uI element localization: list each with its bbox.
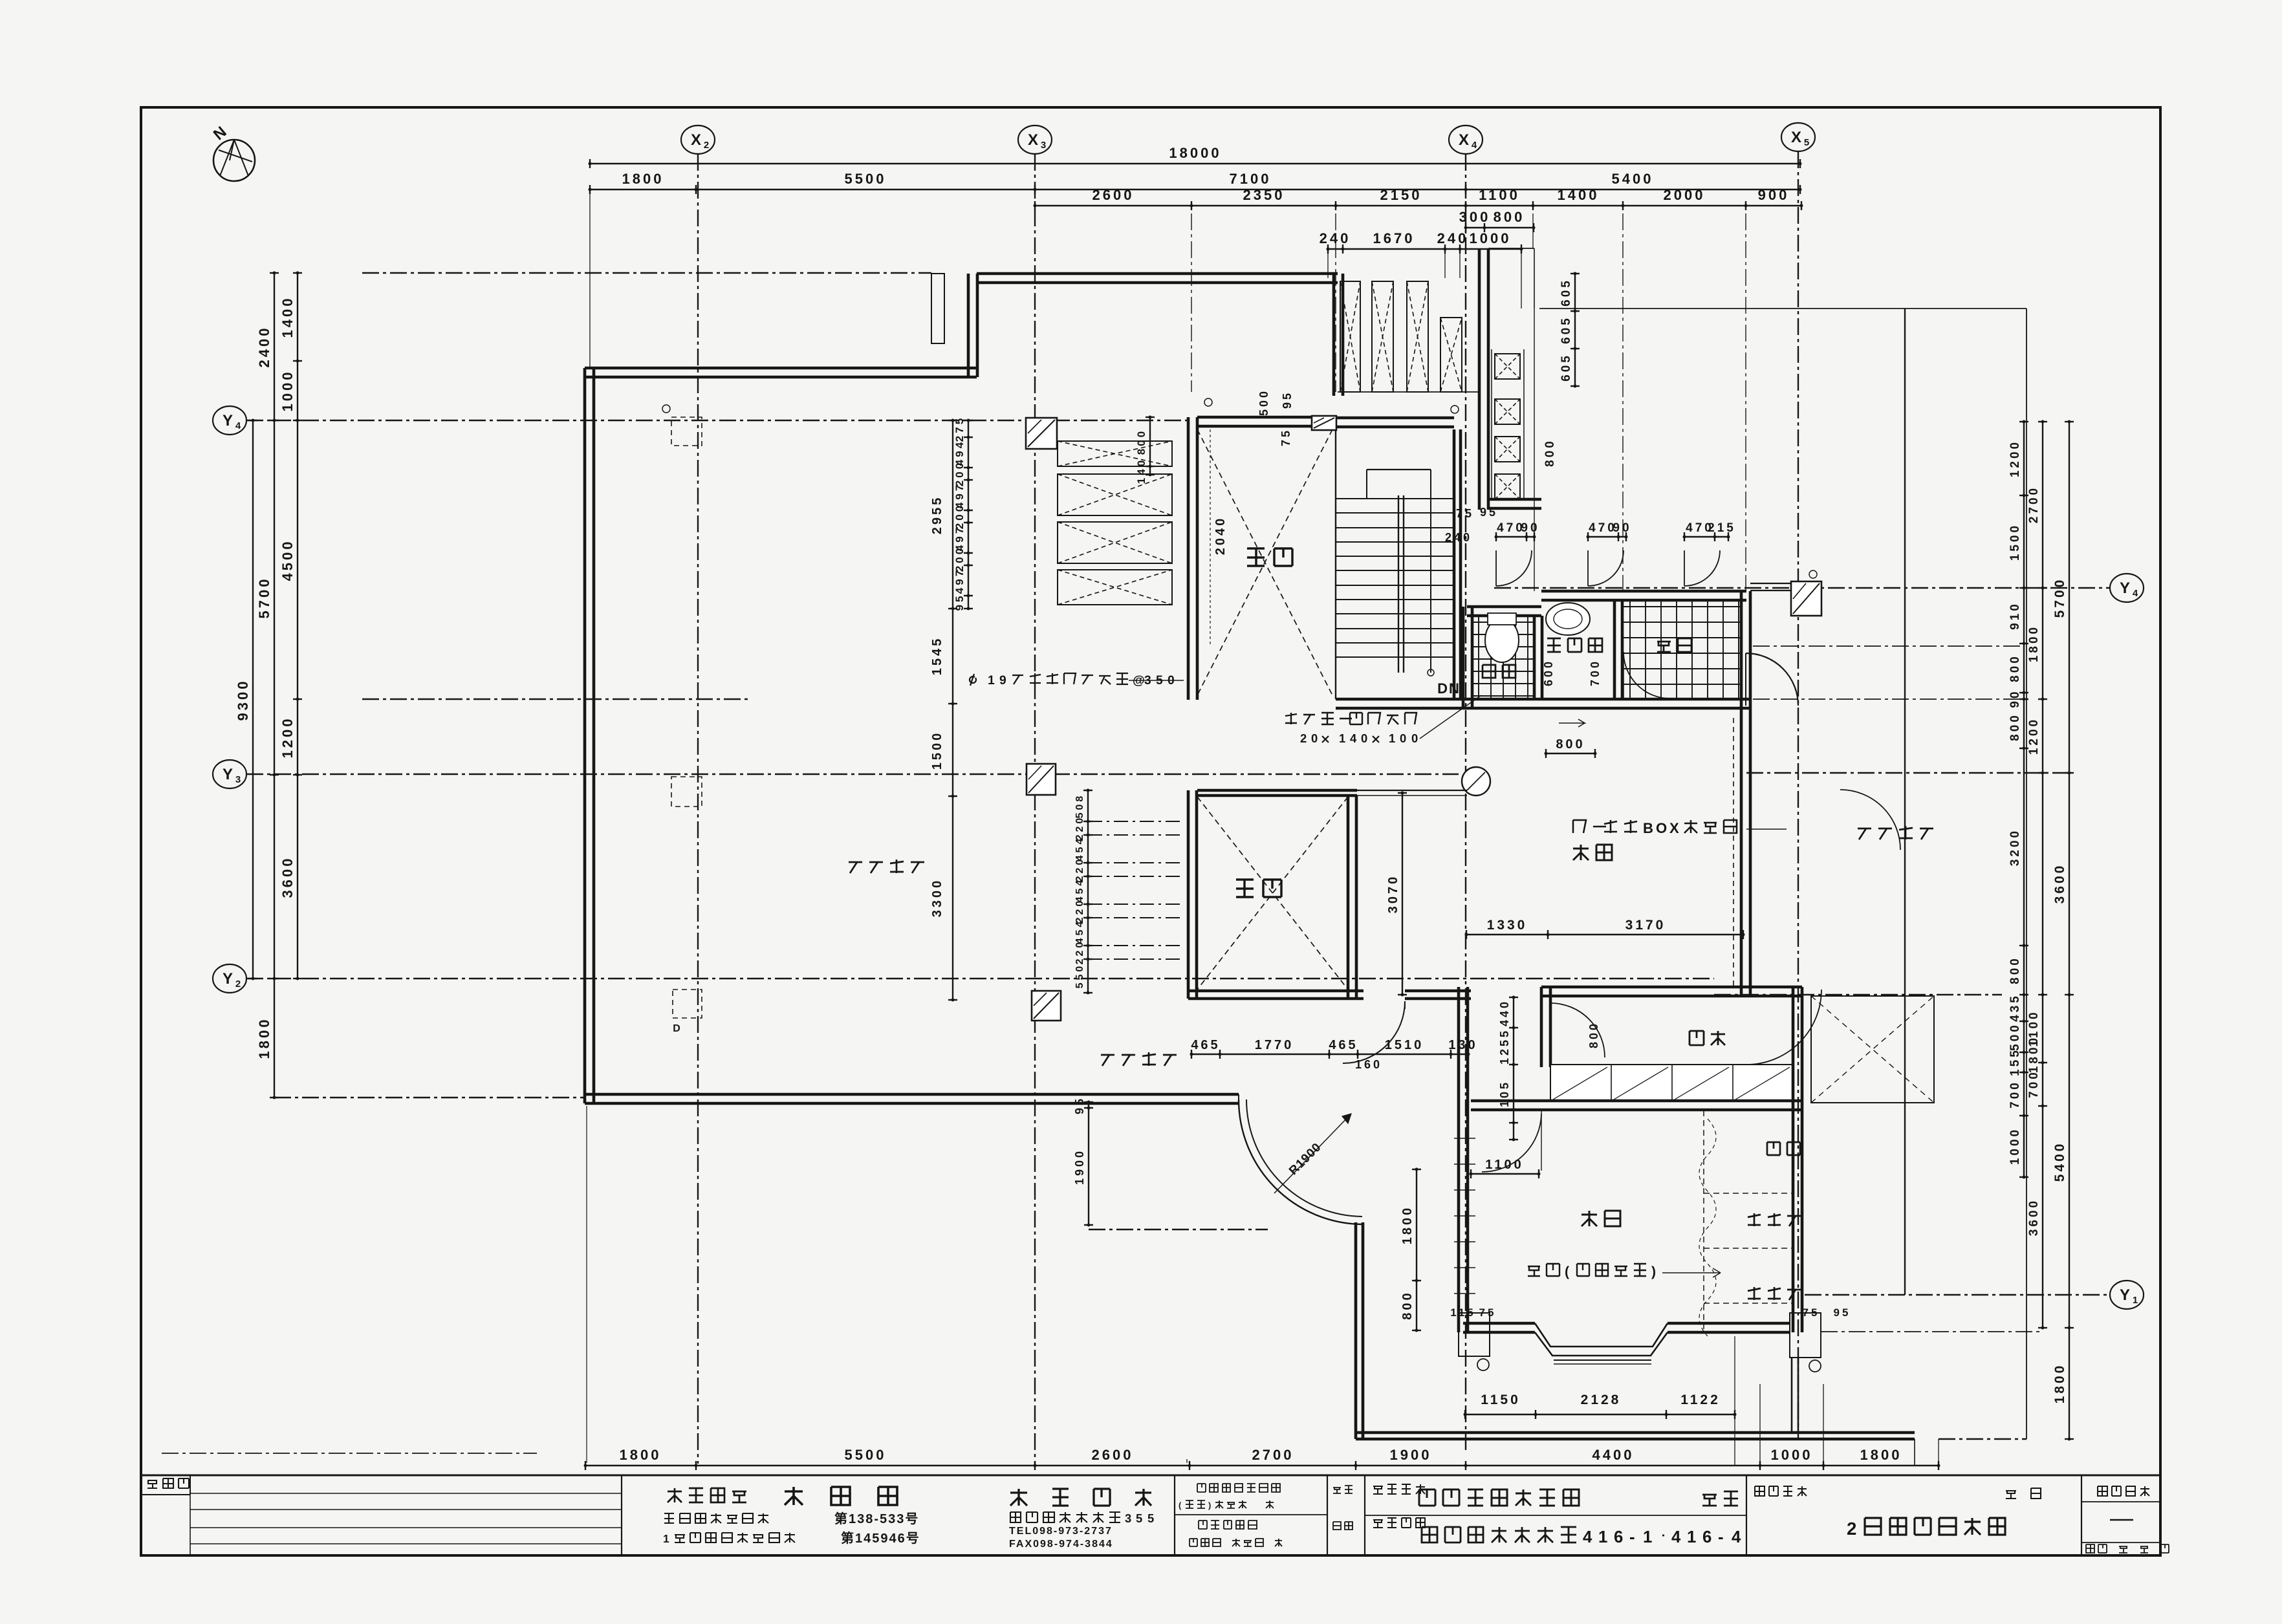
svg-text:1: 1	[663, 1532, 669, 1545]
svg-text:1: 1	[1643, 1528, 1652, 1546]
svg-text:7100: 7100	[1230, 171, 1272, 187]
svg-text:5500: 5500	[845, 1447, 887, 1463]
svg-text:1900: 1900	[1390, 1447, 1432, 1463]
svg-text:X: X	[1791, 129, 1801, 146]
svg-text:115: 115	[1450, 1306, 1475, 1319]
svg-text:3: 3	[1041, 140, 1046, 151]
svg-text:800: 800	[2008, 713, 2022, 741]
svg-text:0: 0	[1361, 731, 1367, 745]
svg-text:800: 800	[1543, 438, 1557, 467]
svg-text:FAX098-974-3844: FAX098-974-3844	[1009, 1539, 1113, 1550]
svg-text:2150: 2150	[1380, 187, 1422, 203]
svg-text:Y: Y	[223, 970, 233, 988]
svg-text:300: 300	[1459, 209, 1491, 225]
svg-text:第138-533号: 第138-533号	[834, 1511, 919, 1526]
svg-text:1200: 1200	[279, 717, 296, 759]
svg-text:1100: 1100	[1485, 1158, 1523, 1172]
svg-text:1500: 1500	[930, 731, 944, 770]
svg-text:2350: 2350	[1243, 187, 1285, 203]
svg-text:1545: 1545	[930, 636, 944, 676]
svg-text:1: 1	[2133, 1295, 2138, 1306]
svg-text:75: 75	[1279, 428, 1292, 446]
svg-text:X: X	[691, 131, 701, 149]
svg-text:465: 465	[1329, 1038, 1358, 1052]
svg-text:Y: Y	[223, 412, 233, 429]
svg-text:O: O	[1656, 820, 1667, 836]
svg-text:4: 4	[1671, 1528, 1681, 1546]
svg-text:90: 90	[1613, 521, 1631, 535]
svg-text:Y: Y	[223, 766, 233, 783]
svg-text:700: 700	[1589, 659, 1602, 686]
svg-text:5: 5	[1804, 137, 1809, 148]
svg-text:800: 800	[2008, 956, 2022, 984]
svg-text:TEL098-973-2737: TEL098-973-2737	[1009, 1526, 1113, 1537]
svg-text:1000: 1000	[1771, 1447, 1813, 1463]
svg-text:X: X	[1669, 820, 1679, 836]
svg-text:(: (	[1565, 1264, 1570, 1279]
svg-text:1: 1	[988, 674, 995, 687]
svg-text:95: 95	[1480, 506, 1498, 519]
svg-text:800: 800	[1400, 1290, 1415, 1319]
svg-text:5700: 5700	[256, 577, 272, 619]
svg-text:5: 5	[1147, 1511, 1154, 1525]
svg-text:D: D	[673, 1023, 680, 1034]
svg-text:): )	[1208, 1500, 1211, 1510]
svg-text:215: 215	[1708, 521, 1736, 535]
svg-text:-: -	[1718, 1528, 1724, 1546]
svg-text:465: 465	[1191, 1038, 1220, 1052]
svg-text:1: 1	[1389, 731, 1395, 745]
svg-text:1800: 1800	[622, 171, 664, 187]
svg-text:5700: 5700	[2052, 578, 2067, 618]
svg-text:5: 5	[1136, 1511, 1142, 1525]
svg-text:1100: 1100	[1479, 187, 1520, 203]
svg-text:1: 1	[1339, 731, 1345, 745]
svg-text:B: B	[1643, 820, 1653, 836]
svg-text:4: 4	[2133, 588, 2138, 599]
svg-text:500: 500	[1257, 389, 1270, 416]
svg-text:1000: 1000	[2008, 1127, 2022, 1165]
svg-text:1122: 1122	[1680, 1392, 1721, 1407]
svg-text:2700: 2700	[2027, 486, 2041, 523]
svg-text:4: 4	[235, 420, 241, 431]
svg-text:2: 2	[1300, 731, 1307, 745]
svg-text:3600: 3600	[2027, 1198, 2041, 1236]
svg-text:2040: 2040	[1213, 516, 1228, 556]
svg-text:1770: 1770	[1255, 1038, 1294, 1052]
svg-text:0: 0	[1311, 731, 1318, 745]
svg-text:75: 75	[1803, 1306, 1820, 1319]
svg-text:90: 90	[2008, 689, 2022, 708]
svg-text:140: 140	[1135, 458, 1147, 484]
svg-text:220: 220	[1074, 940, 1085, 965]
svg-text:1800: 1800	[2052, 1363, 2067, 1404]
svg-text:6: 6	[1614, 1528, 1623, 1546]
svg-text:800: 800	[1494, 209, 1525, 225]
svg-text:3: 3	[235, 774, 241, 785]
svg-text:95: 95	[1834, 1306, 1851, 1319]
svg-text:1800: 1800	[2027, 625, 2041, 662]
svg-text:第145946号: 第145946号	[841, 1530, 920, 1546]
svg-text:605: 605	[1559, 316, 1573, 344]
svg-text:2400: 2400	[256, 326, 272, 368]
svg-text:497: 497	[953, 568, 966, 594]
svg-text:): )	[1651, 1264, 1656, 1279]
svg-text:1000: 1000	[1470, 230, 1512, 246]
svg-text:440: 440	[1498, 999, 1511, 1026]
svg-text:800: 800	[1587, 1021, 1600, 1048]
svg-text:600: 600	[1542, 659, 1555, 686]
svg-text:240: 240	[1320, 230, 1351, 246]
svg-text:1800: 1800	[256, 1017, 272, 1059]
svg-text:9300: 9300	[235, 679, 251, 721]
svg-text:DN: DN	[1437, 680, 1461, 697]
svg-text:4: 4	[1472, 140, 1477, 151]
svg-text:1255: 1255	[1498, 1028, 1511, 1065]
svg-text:1150: 1150	[1481, 1392, 1521, 1407]
svg-text:605: 605	[1559, 353, 1573, 382]
svg-text:Y: Y	[2120, 1286, 2130, 1304]
svg-text:6: 6	[1702, 1528, 1711, 1546]
svg-text:18000: 18000	[1169, 145, 1221, 161]
svg-text:3600: 3600	[279, 856, 296, 898]
svg-text:1: 1	[1687, 1528, 1696, 1546]
svg-text:95: 95	[1281, 391, 1294, 409]
svg-text:900: 900	[1758, 187, 1790, 203]
svg-text:1400: 1400	[279, 296, 296, 338]
svg-text:800: 800	[2008, 654, 2022, 682]
svg-text:1000: 1000	[279, 370, 296, 412]
svg-text:4500: 4500	[279, 539, 296, 581]
svg-text:0: 0	[1411, 731, 1418, 745]
svg-text:3070: 3070	[1386, 874, 1400, 914]
svg-text:1200: 1200	[2027, 717, 2041, 755]
svg-text:95: 95	[1073, 1096, 1086, 1114]
svg-text:240: 240	[1437, 230, 1469, 246]
svg-text:550: 550	[1074, 964, 1085, 989]
svg-text:5400: 5400	[2052, 1142, 2067, 1182]
svg-text:508: 508	[1074, 794, 1085, 819]
svg-text:2128: 2128	[1581, 1392, 1622, 1407]
svg-text:1800: 1800	[1400, 1206, 1415, 1245]
svg-text:Y: Y	[2120, 579, 2130, 597]
svg-text:605: 605	[1559, 278, 1573, 307]
svg-text:4: 4	[1583, 1528, 1592, 1546]
svg-text:3200: 3200	[2008, 828, 2022, 866]
svg-text:2000: 2000	[1664, 187, 1706, 203]
svg-text:2600: 2600	[1092, 187, 1135, 203]
svg-text:800: 800	[1556, 737, 1585, 752]
svg-text:700: 700	[2027, 1070, 2041, 1098]
svg-text:0: 0	[1400, 731, 1406, 745]
svg-text:2955: 2955	[930, 495, 944, 535]
svg-text:1400: 1400	[1558, 187, 1600, 203]
svg-text:3300: 3300	[930, 878, 944, 918]
svg-text:90: 90	[1521, 521, 1539, 535]
svg-text:1800: 1800	[1860, 1447, 1902, 1463]
svg-text:4400: 4400	[1592, 1447, 1635, 1463]
svg-text:1900: 1900	[1073, 1149, 1086, 1185]
svg-text:2700: 2700	[1252, 1447, 1294, 1463]
svg-text:4: 4	[1350, 731, 1357, 745]
svg-text:1800: 1800	[620, 1447, 662, 1463]
svg-text:1: 1	[1598, 1528, 1607, 1546]
svg-text:5500: 5500	[845, 171, 887, 187]
svg-text:160: 160	[1355, 1058, 1382, 1071]
svg-text:800: 800	[1135, 429, 1147, 455]
svg-text:4: 4	[1732, 1528, 1741, 1546]
svg-text:910: 910	[2008, 601, 2022, 630]
svg-text:1670: 1670	[1373, 230, 1415, 246]
svg-text:155: 155	[2008, 1048, 2022, 1076]
svg-text:2: 2	[704, 140, 709, 151]
svg-text:500: 500	[2008, 1023, 2022, 1051]
svg-text:3600: 3600	[2052, 863, 2067, 904]
svg-text:1800: 1800	[2027, 1035, 2041, 1073]
svg-text:75: 75	[1479, 1306, 1497, 1319]
svg-text:X: X	[1459, 131, 1469, 149]
svg-text:2: 2	[235, 979, 241, 990]
svg-text:1200: 1200	[2008, 440, 2022, 477]
svg-text:3: 3	[1125, 1511, 1131, 1525]
svg-text:1500: 1500	[2008, 523, 2022, 561]
svg-text:(: (	[1179, 1500, 1182, 1510]
svg-text:X: X	[1028, 131, 1038, 149]
svg-text:130: 130	[1448, 1038, 1477, 1052]
svg-text:105: 105	[1498, 1080, 1511, 1107]
svg-text:5400: 5400	[1612, 171, 1654, 187]
svg-text:435: 435	[2008, 993, 2022, 1022]
svg-text:-: -	[1629, 1528, 1635, 1546]
svg-text:1330: 1330	[1487, 918, 1528, 933]
svg-text:2600: 2600	[1092, 1447, 1134, 1463]
svg-text:240: 240	[1445, 531, 1472, 544]
svg-text:9: 9	[999, 674, 1006, 687]
svg-text:3170: 3170	[1625, 918, 1666, 933]
svg-text:2: 2	[1847, 1519, 1856, 1539]
svg-text:75: 75	[1456, 507, 1474, 520]
svg-text:700: 700	[2008, 1080, 2022, 1109]
